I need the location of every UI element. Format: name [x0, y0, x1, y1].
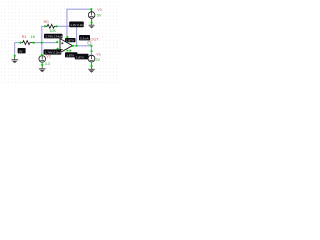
- probe box feedback wire: [69, 22, 86, 28]
- node dot V3 bottom: [91, 21, 93, 23]
- voltage source V2: [39, 56, 46, 63]
- wire input row horizontal to op-amp plus input: [15, 42, 57, 44]
- V3 bottom lead: [91, 18, 93, 25]
- svg-text:1.87V: 1.87V: [76, 55, 84, 59]
- svg-text:3.3: 3.3: [45, 62, 50, 66]
- probe box below op-amp lower: [75, 54, 89, 60]
- ground V1: [88, 69, 95, 73]
- ground left: [11, 55, 18, 64]
- svg-text:1.9V 0.2mA: 1.9V 0.2mA: [70, 23, 86, 27]
- node dot junction input: [41, 42, 43, 44]
- R0 terminal left: [44, 25, 46, 27]
- wire left ground vertical: [14, 43, 16, 56]
- node dot below op-amp left: [67, 50, 69, 52]
- OUT marker: [88, 40, 90, 43]
- svg-text:V3: V3: [97, 8, 102, 12]
- op-amp plus sign: [61, 42, 63, 44]
- op-amp minus sign: [61, 48, 63, 50]
- resistor R0: [46, 24, 56, 28]
- svg-text:V2: V2: [46, 55, 51, 59]
- svg-text:5V: 5V: [97, 13, 102, 17]
- node dot V1 bottom: [90, 65, 92, 67]
- R0 terminal right: [56, 25, 58, 27]
- probe box under R0: [44, 34, 63, 39]
- wire input node vertical from R0 left down to V2: [42, 26, 44, 55]
- svg-text:1K: 1K: [31, 35, 36, 39]
- voltage source V3: [88, 9, 95, 18]
- node dot V2 bottom: [41, 64, 43, 66]
- node dot output corner: [76, 45, 78, 47]
- voltage source V1: [88, 55, 95, 62]
- svg-text:R0: R0: [44, 19, 50, 24]
- op-amp input dot minus: [57, 48, 59, 50]
- wire OUT node down to V1: [90, 46, 92, 55]
- probe box op-amp left: [65, 38, 76, 43]
- ground V2: [39, 69, 46, 73]
- node dot OUT junction: [90, 45, 92, 47]
- svg-text:1.87V: 1.87V: [66, 53, 74, 57]
- resistor R1: [21, 41, 33, 45]
- V1 bottom lead: [91, 62, 93, 65]
- wire op-amp output horizontal to OUT node: [73, 45, 91, 47]
- svg-text:R1: R1: [22, 34, 27, 39]
- svg-text:0V: 0V: [19, 49, 23, 53]
- svg-text:V1: V1: [96, 53, 101, 57]
- op-amp V+ pin dot: [66, 36, 68, 38]
- svg-text:2V: 2V: [96, 58, 101, 62]
- svg-text:1.87V: 1.87V: [66, 39, 74, 43]
- node dot V3 top: [90, 8, 92, 10]
- node dot V1 stub: [90, 50, 92, 52]
- probe box near minus input: [44, 49, 63, 54]
- op-amp output dot: [72, 45, 74, 47]
- wire supply top from V3 to corner and down to op-amp V+ pin: [67, 9, 91, 37]
- node dot V2 top: [41, 54, 43, 56]
- ground V3: [89, 25, 95, 28]
- svg-text:0.2mA: 0.2mA: [80, 36, 89, 40]
- svg-text:10K: 10K: [49, 29, 56, 33]
- op-amp input dot plus: [56, 41, 58, 43]
- R1 terminal left: [19, 42, 21, 44]
- wire feedback from R0 right across to output vertical: [57, 26, 76, 46]
- V2 bottom lead: [41, 62, 43, 64]
- node dot below op-amp right: [69, 50, 71, 52]
- svg-text:OUT: OUT: [90, 37, 99, 42]
- R1 terminal right: [33, 42, 35, 44]
- svg-text:1.74V 174uA: 1.74V 174uA: [45, 35, 62, 39]
- probe box op-amp right: [79, 35, 90, 40]
- probe box below op-amp upper: [65, 52, 77, 57]
- probe box ground left: [18, 48, 26, 53]
- op-amp U1: [60, 39, 72, 53]
